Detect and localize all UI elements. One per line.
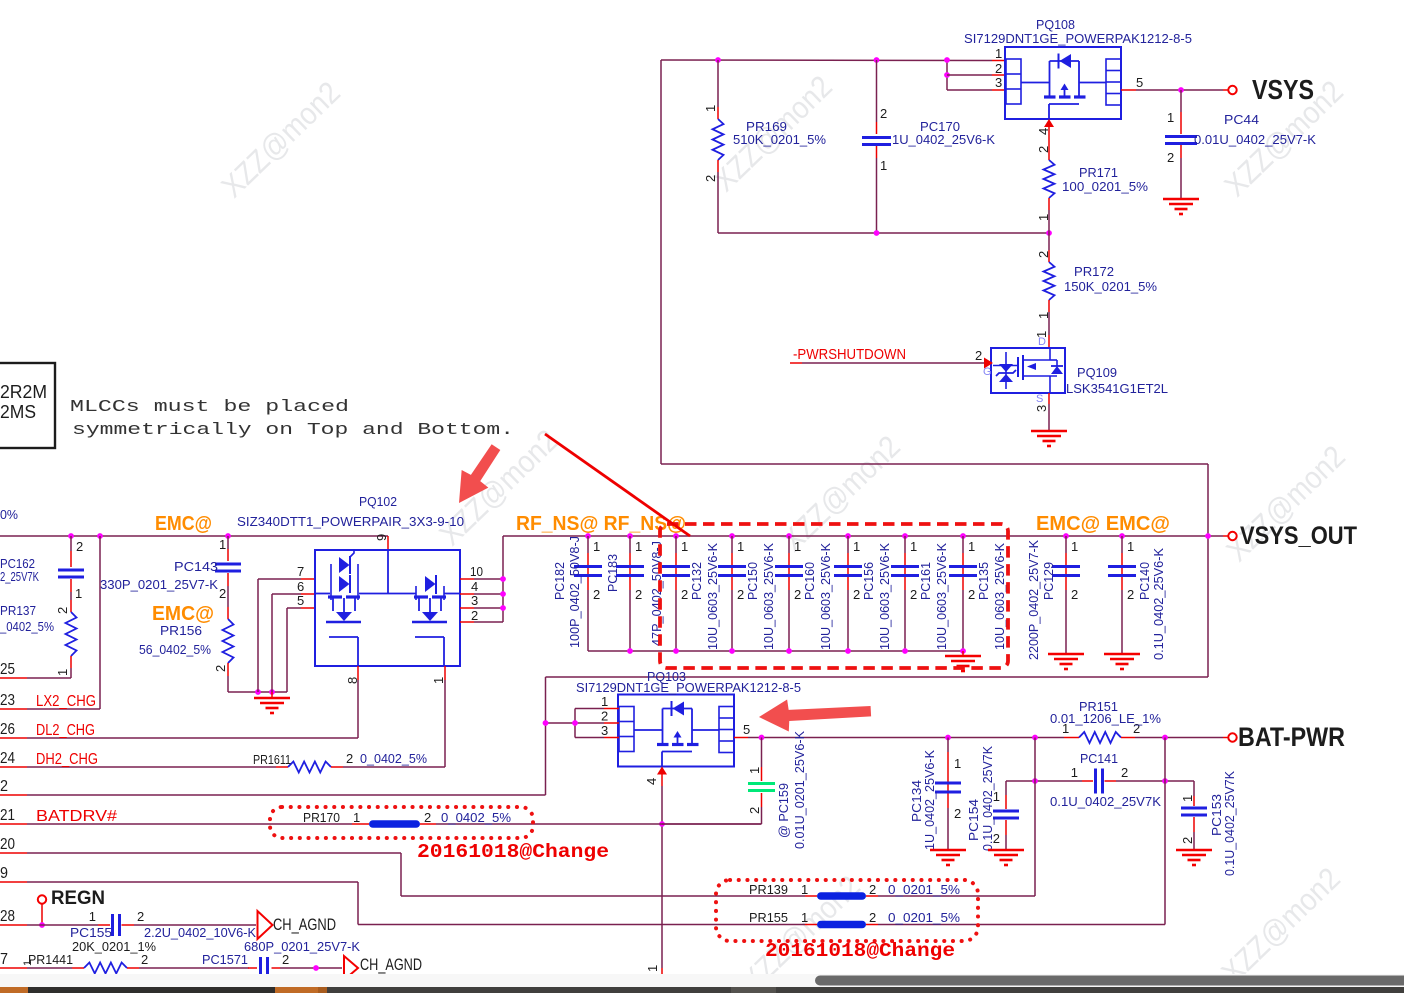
svg-text:2: 2 — [424, 810, 431, 825]
wire PQ102 pin6 — [272, 579, 315, 594]
svg-text:0.1U_0402_25V7K: 0.1U_0402_25V7K — [1050, 794, 1161, 809]
svg-text:1: 1 — [1036, 312, 1051, 319]
wire pin28 row — [0, 908, 98, 925]
capacitor PC141 — [1050, 751, 1161, 809]
svg-text:2: 2 — [995, 61, 1002, 76]
svg-text:PQ109: PQ109 — [1077, 365, 1117, 380]
transistor PQ109 — [991, 348, 1065, 393]
annotation dotted box PR170 — [270, 807, 533, 838]
svg-text:@ PC159: @ PC159 — [776, 783, 791, 838]
symbol CH_AGND 1 — [258, 911, 337, 939]
wire PQ102 pin4 — [460, 579, 503, 594]
ground PC140 — [1104, 654, 1140, 669]
wire mid return — [546, 676, 1209, 678]
wire pin20 row — [0, 836, 401, 896]
wire bottom of PR169/PC170 — [718, 230, 1052, 236]
svg-text:PC132: PC132 — [689, 562, 704, 600]
svg-text:2: 2 — [954, 806, 961, 821]
svg-text:2: 2 — [282, 952, 289, 967]
svg-text:1: 1 — [880, 158, 887, 173]
resistor PR1441 — [22, 952, 249, 974]
svg-text:1: 1 — [601, 694, 608, 709]
wire pin27 row — [0, 951, 72, 968]
svg-text:PC1571: PC1571 — [202, 952, 248, 967]
svg-text:2: 2 — [0, 778, 8, 795]
svg-text:2R2M: 2R2M — [0, 382, 47, 402]
label PQ103 part — [576, 680, 801, 695]
svg-text:PR171: PR171 — [1079, 165, 1118, 180]
wire PR139 right vertical — [1034, 738, 1036, 897]
wire top bus to PQ108 pin1 — [661, 59, 1006, 62]
ground PC153 — [1176, 850, 1212, 865]
wire riser to VSYS_OUT net — [543, 677, 549, 795]
mosfet PQ108 — [1005, 47, 1121, 119]
ui scrollbar thumb — [815, 976, 1404, 986]
capacitor PC159 — [662, 731, 807, 849]
wire PQ109 source — [1034, 393, 1049, 430]
wire loop bottom — [661, 463, 1208, 465]
svg-text:1: 1 — [968, 539, 975, 554]
svg-text:47P_0402_50V8-J: 47P_0402_50V8-J — [649, 541, 664, 646]
label PQ102 — [359, 494, 397, 509]
svg-text:680P_0201_25V7-K: 680P_0201_25V7-K — [244, 939, 360, 954]
mosfet PQ103 — [618, 695, 734, 767]
label PQ102 part — [237, 514, 464, 529]
watermark xZZ@mon2 — [433, 423, 565, 552]
capacitor PC170 — [862, 60, 995, 233]
svg-text:21: 21 — [0, 807, 15, 824]
capacitor PC150 — [718, 533, 746, 651]
capacitor PC182 — [574, 533, 602, 651]
svg-text:PC182: PC182 — [552, 562, 567, 600]
svg-text:1: 1 — [1036, 214, 1051, 221]
port BAT-PWR — [1223, 722, 1345, 752]
svg-text:1: 1 — [22, 960, 34, 966]
svg-text:EMC@ EMC@: EMC@ EMC@ — [1036, 513, 1170, 535]
svg-text:1: 1 — [681, 539, 688, 554]
svg-text:DH2_CHG: DH2_CHG — [36, 751, 98, 768]
annotation dotted box PR139/PR155 — [716, 880, 978, 941]
resistor PR171 — [1036, 119, 1148, 233]
svg-text:PR1441: PR1441 — [28, 952, 73, 967]
svg-text:1: 1 — [954, 756, 961, 771]
svg-text:24: 24 — [0, 750, 15, 767]
svg-text:23: 23 — [0, 692, 15, 709]
annotation change text 1 — [417, 841, 609, 863]
label 0% — [0, 507, 18, 522]
svg-text:2: 2 — [703, 175, 718, 182]
pin 2 label PQ108 — [995, 61, 1002, 76]
svg-text:-PWRSHUTDOWN: -PWRSHUTDOWN — [793, 346, 906, 363]
capacitor PC134 — [909, 738, 961, 851]
annotation dashed box MLCC — [660, 524, 1008, 668]
svg-text:2_25V7K: 2_25V7K — [0, 569, 39, 584]
watermark xZZ@mon2 — [1215, 861, 1347, 990]
svg-text:SI7129DNT1GE_POWERPAK1212-8-5: SI7129DNT1GE_POWERPAK1212-8-5 — [576, 680, 801, 695]
svg-text:2: 2 — [737, 587, 744, 602]
svg-text:3: 3 — [1034, 405, 1049, 412]
wire cap bank bottom bus — [588, 648, 966, 654]
svg-text:PR155: PR155 — [749, 910, 788, 925]
svg-text:PC155: PC155 — [70, 925, 112, 940]
svg-text:2: 2 — [869, 910, 876, 925]
svg-text:PC143: PC143 — [174, 559, 218, 574]
svg-text:1: 1 — [747, 767, 762, 774]
svg-text:2: 2 — [213, 665, 228, 672]
svg-text:EMC@: EMC@ — [152, 603, 214, 625]
net BATDRV# / resistor PR170 — [0, 807, 762, 828]
svg-text:1: 1 — [794, 539, 801, 554]
svg-text:SIZ340DTT1_POWERPAIR_3X3-9-10: SIZ340DTT1_POWERPAIR_3X3-9-10 — [237, 514, 464, 529]
svg-text:7: 7 — [0, 951, 8, 968]
resistor PR139 — [401, 882, 1035, 900]
net DL2_CHG — [0, 721, 358, 739]
ground PQ102 gates — [254, 692, 290, 713]
wire PQ102 pin10 — [460, 564, 503, 579]
svg-text:8: 8 — [345, 677, 360, 684]
wire PQ103 pin2 — [546, 709, 620, 724]
svg-text:2200P_0402_25V7-K: 2200P_0402_25V7-K — [1026, 540, 1041, 660]
watermark xZZ@mon2 — [707, 69, 839, 198]
svg-text:3: 3 — [995, 75, 1002, 90]
note box 2R2M — [0, 363, 55, 448]
wire PQ102 output bus — [500, 536, 506, 622]
svg-text:1U_0402_25V6-K: 1U_0402_25V6-K — [922, 750, 937, 850]
svg-text:2: 2 — [593, 587, 600, 602]
label PC161 — [918, 543, 949, 650]
svg-text:PC156: PC156 — [861, 562, 876, 600]
svg-text:3: 3 — [471, 593, 478, 608]
resistor PR137 — [0, 600, 77, 678]
wire PQ102 pin2 — [460, 608, 503, 623]
wire LX2 riser — [97, 533, 103, 709]
svg-text:2: 2 — [747, 807, 762, 814]
svg-text:0_0402_5%: 0_0402_5% — [441, 810, 511, 825]
mosfet PQ102 left FET — [326, 549, 361, 666]
svg-text:2.2U_0402_10V6-K: 2.2U_0402_10V6-K — [144, 925, 256, 940]
capacitor PC129 — [1026, 533, 1080, 660]
svg-text:25: 25 — [0, 661, 15, 678]
svg-text:PR139: PR139 — [749, 882, 788, 897]
svg-text:1: 1 — [593, 539, 600, 554]
svg-text:4: 4 — [471, 579, 478, 594]
svg-text:5: 5 — [1136, 75, 1143, 90]
mosfet PQ102 right FET — [412, 575, 447, 666]
svg-text:BATDRV#: BATDRV# — [36, 808, 117, 825]
svg-text:EMC@: EMC@ — [155, 513, 212, 535]
svg-text:1: 1 — [635, 539, 642, 554]
svg-text:PR170: PR170 — [303, 810, 340, 825]
svg-text:2: 2 — [880, 106, 887, 121]
svg-text:1: 1 — [645, 965, 660, 972]
wire PQ102 pin5 — [287, 593, 315, 608]
pin 3 label PQ108 — [995, 75, 1002, 90]
svg-text:1: 1 — [1071, 765, 1078, 780]
svg-text:DL2_CHG: DL2_CHG — [36, 722, 95, 739]
resistor PR155 — [358, 910, 1165, 928]
svg-text:2: 2 — [910, 587, 917, 602]
wire BAT-PWR — [734, 722, 1064, 740]
svg-text:2: 2 — [346, 751, 353, 766]
label PC183 — [605, 541, 664, 646]
port VSYS_OUT — [1228, 522, 1357, 550]
resistor PR172 — [1036, 233, 1157, 332]
svg-text:10U_0603_25V6-K: 10U_0603_25V6-K — [934, 543, 949, 650]
mosfet PQ102 box — [315, 550, 460, 666]
svg-text:PR1611: PR1611 — [253, 752, 291, 767]
annotation red line — [545, 434, 690, 536]
svg-text:PC183: PC183 — [605, 554, 620, 592]
ground PC154 — [988, 850, 1024, 865]
svg-text:PR172: PR172 — [1074, 264, 1114, 279]
svg-text:2: 2 — [141, 952, 148, 967]
svg-text:1: 1 — [853, 539, 860, 554]
svg-text:330P_0201_25V7-K: 330P_0201_25V7-K — [100, 577, 218, 592]
svg-text:0.01U_0201_25V6-K: 0.01U_0201_25V6-K — [792, 731, 807, 849]
svg-text:PC141: PC141 — [1080, 751, 1118, 766]
capacitor PC44 — [1165, 90, 1316, 198]
svg-text:VSYS_OUT: VSYS_OUT — [1240, 522, 1357, 550]
svg-text:PC154: PC154 — [966, 799, 981, 841]
resistor PR156 — [139, 607, 234, 692]
capacitor PC156 — [834, 533, 862, 651]
net -PWRSHUTDOWN — [790, 346, 993, 378]
wire pin25 row — [0, 661, 71, 678]
svg-text:2: 2 — [219, 586, 226, 601]
svg-text:2: 2 — [1071, 587, 1078, 602]
svg-text:PC44: PC44 — [1224, 112, 1259, 127]
svg-text:2: 2 — [869, 882, 876, 897]
svg-text:1U_0402_25V6-K: 1U_0402_25V6-K — [892, 132, 995, 147]
label PQ108 part — [964, 31, 1192, 46]
ground cap bank — [945, 651, 981, 671]
svg-text:2: 2 — [975, 348, 982, 363]
ground PC129 — [1048, 654, 1084, 669]
svg-text:1: 1 — [431, 677, 446, 684]
svg-text:G: G — [983, 366, 992, 378]
svg-text:PR137: PR137 — [0, 603, 36, 618]
svg-text:1: 1 — [801, 882, 808, 897]
resistor PR1611 — [0, 751, 445, 773]
annotation change text 2 — [765, 940, 955, 962]
capacitor PC1571 — [202, 939, 360, 979]
label PQ109 — [1066, 365, 1168, 396]
wire PQ108 pin3 — [947, 89, 1006, 91]
node junction PR169 top — [715, 57, 721, 63]
capacitor PC160 — [775, 533, 803, 651]
svg-text:1: 1 — [75, 586, 82, 601]
watermark xZZ@mon2 — [1220, 439, 1352, 568]
svg-text:2: 2 — [471, 608, 478, 623]
svg-text:2: 2 — [681, 587, 688, 602]
svg-text:100P_0402_50V8-J: 100P_0402_50V8-J — [567, 536, 582, 648]
wire PQ102 gate bus — [228, 579, 287, 695]
svg-text:PC161: PC161 — [918, 562, 933, 600]
svg-text:10: 10 — [470, 564, 483, 579]
svg-text:S: S — [1036, 393, 1043, 405]
wire PQ102 pin3 — [460, 593, 503, 608]
wire PQ103 pin1 — [575, 694, 619, 709]
wire PQ102 pin7 — [258, 564, 315, 579]
label PC160 — [802, 543, 833, 650]
capacitor PC162 — [0, 533, 84, 601]
svg-text:1: 1 — [737, 539, 744, 554]
svg-text:VSYS: VSYS — [1252, 74, 1314, 105]
port REGN — [38, 888, 105, 928]
svg-text:2: 2 — [1036, 146, 1051, 153]
watermark xZZ@mon2 — [1218, 74, 1350, 203]
svg-text:LSK3541G1ET2L: LSK3541G1ET2L — [1066, 381, 1168, 396]
svg-text:0.1U_0402_25V7K: 0.1U_0402_25V7K — [980, 746, 995, 851]
svg-text:PC135: PC135 — [976, 562, 991, 600]
wire PQ102 pin8 — [345, 666, 360, 738]
svg-text:1: 1 — [55, 669, 70, 676]
svg-text:4: 4 — [1036, 128, 1051, 135]
svg-text:0%: 0% — [0, 507, 18, 522]
svg-text:5: 5 — [743, 722, 750, 737]
svg-text:PR156: PR156 — [160, 623, 202, 638]
note MLCC text — [70, 398, 514, 440]
svg-text:2: 2 — [968, 587, 975, 602]
ui scrollbar track — [0, 974, 1404, 987]
svg-text:28: 28 — [0, 908, 15, 925]
svg-text:1: 1 — [1180, 795, 1195, 802]
svg-text:2: 2 — [1036, 251, 1051, 258]
svg-text:150K_0201_5%: 150K_0201_5% — [1064, 279, 1157, 294]
svg-text:1: 1 — [910, 539, 917, 554]
svg-text:1: 1 — [1167, 110, 1174, 125]
svg-text:REGN: REGN — [51, 888, 105, 909]
label PC132 — [689, 543, 720, 650]
capacitor PC153 — [1180, 771, 1237, 876]
svg-text:510K_0201_5%: 510K_0201_5% — [733, 132, 826, 147]
capacitor PC183 — [616, 533, 644, 651]
svg-text:10U_0603_25V6-K: 10U_0603_25V6-K — [818, 543, 833, 650]
wire VSYS_OUT bus right — [503, 533, 1228, 539]
label RF_NS@ pair — [516, 513, 686, 535]
svg-text:1: 1 — [1127, 539, 1134, 554]
ground PC44 — [1163, 199, 1199, 214]
svg-text:PC160: PC160 — [802, 562, 817, 600]
capacitor PC143 — [100, 533, 241, 607]
label PC182 — [552, 536, 582, 648]
svg-text:D: D — [1038, 336, 1046, 348]
capacitor PC154 — [966, 746, 1019, 851]
svg-text:0_0201_5%: 0_0201_5% — [888, 910, 960, 925]
capacitor PC132 — [662, 533, 690, 651]
svg-text:0.1U_0402_25V6-K: 0.1U_0402_25V6-K — [1151, 548, 1166, 660]
wire pin22 row — [0, 778, 546, 795]
capacitor PC161 — [891, 533, 919, 651]
wire PQ108 pin2/3 branch vertical — [944, 57, 950, 90]
svg-text:1: 1 — [1071, 539, 1078, 554]
svg-text:4: 4 — [644, 778, 659, 785]
symbol CH_AGND 2 — [344, 955, 422, 980]
svg-text:SI7129DNT1GE_POWERPAK1212-8-5: SI7129DNT1GE_POWERPAK1212-8-5 — [964, 31, 1192, 46]
svg-text:0_0402_5%: 0_0402_5% — [360, 751, 427, 766]
svg-text:1: 1 — [89, 909, 96, 924]
ui taskbar — [0, 987, 1404, 993]
watermark xZZ@mon2 — [735, 869, 867, 993]
svg-text:5: 5 — [297, 593, 304, 608]
wire PQ103 pin4 — [644, 767, 667, 975]
watermark xZZ@mon2 — [215, 75, 347, 204]
svg-text:symmetrically on Top and Botto: symmetrically on Top and Bottom. — [72, 421, 514, 440]
wire VSYS from PQ108 pin5 — [1121, 87, 1228, 93]
label PQ103 — [647, 669, 686, 684]
svg-text:2: 2 — [1180, 837, 1195, 844]
svg-text:2: 2 — [1127, 587, 1134, 602]
svg-text:20161018@Change: 20161018@Change — [765, 940, 955, 962]
svg-text:10U_0603_25V6-K: 10U_0603_25V6-K — [992, 543, 1007, 650]
svg-text:10U_0603_25V6-K: 10U_0603_25V6-K — [877, 543, 892, 650]
svg-text:2: 2 — [601, 709, 608, 724]
watermark xZZ@mon2 — [775, 429, 907, 558]
label PC156 — [861, 543, 892, 650]
resistor PR151 — [1050, 699, 1223, 743]
svg-text:1: 1 — [219, 537, 226, 552]
svg-text:LX2_CHG: LX2_CHG — [36, 693, 96, 710]
capacitor PC155 — [70, 909, 256, 954]
svg-text:0.01U_0402_25V7-K: 0.01U_0402_25V7-K — [1194, 132, 1316, 147]
svg-text:1: 1 — [995, 46, 1002, 61]
net LX2_CHG — [0, 692, 100, 710]
svg-text:MLCCs must be placed: MLCCs must be placed — [70, 398, 349, 417]
resistor PR169 — [703, 60, 826, 233]
svg-text:CH_AGND: CH_AGND — [360, 955, 422, 974]
svg-text:PC129: PC129 — [1041, 562, 1056, 600]
label EMC@ 2 — [152, 603, 214, 625]
ground PC134 — [930, 850, 966, 865]
svg-text:PC150: PC150 — [745, 562, 760, 600]
wire PQ103 pin3 — [575, 723, 619, 738]
pin 5 label PQ108 — [1136, 75, 1143, 90]
svg-text:2: 2 — [1121, 765, 1128, 780]
svg-text:10U_0603_25V6-K: 10U_0603_25V6-K — [761, 543, 776, 650]
label PQ108 — [1036, 17, 1075, 32]
svg-text:0.1U_0402_25V7K: 0.1U_0402_25V7K — [1222, 771, 1237, 876]
svg-text:2: 2 — [1167, 150, 1174, 165]
pin 9 stub PQ102 — [374, 534, 389, 550]
svg-text:20: 20 — [0, 836, 15, 853]
svg-text:_0402_5%: _0402_5% — [0, 619, 54, 634]
svg-text:PQ108: PQ108 — [1036, 17, 1075, 32]
svg-text:20161018@Change: 20161018@Change — [417, 841, 609, 863]
svg-text:CH_AGND: CH_AGND — [273, 915, 336, 934]
label PC135 — [976, 543, 1007, 650]
svg-text:2: 2 — [853, 587, 860, 602]
annotation arrow 1 — [446, 438, 510, 512]
label EMC@ 1 — [155, 513, 212, 535]
svg-text:2: 2 — [794, 587, 801, 602]
svg-text:2: 2 — [76, 539, 83, 554]
label EMC@ pair right — [1036, 513, 1170, 535]
svg-text:56_0402_5%: 56_0402_5% — [139, 642, 211, 657]
wire PQ103 gate bus — [572, 709, 578, 738]
svg-text:0_0201_5%: 0_0201_5% — [888, 882, 960, 897]
svg-text:9: 9 — [374, 534, 389, 541]
wire VSYS_OUT bus left — [0, 535, 388, 537]
wire BAT-PWR right vertical — [1164, 738, 1166, 925]
port VSYS — [1228, 74, 1314, 105]
svg-text:7: 7 — [297, 564, 304, 579]
svg-text:PC140: PC140 — [1137, 562, 1152, 600]
svg-text:9: 9 — [0, 865, 8, 882]
svg-text:2: 2 — [635, 587, 642, 602]
wire PC141 row — [1006, 778, 1194, 784]
net DH2_CHG — [0, 750, 98, 768]
capacitor PC140 — [1108, 533, 1166, 660]
